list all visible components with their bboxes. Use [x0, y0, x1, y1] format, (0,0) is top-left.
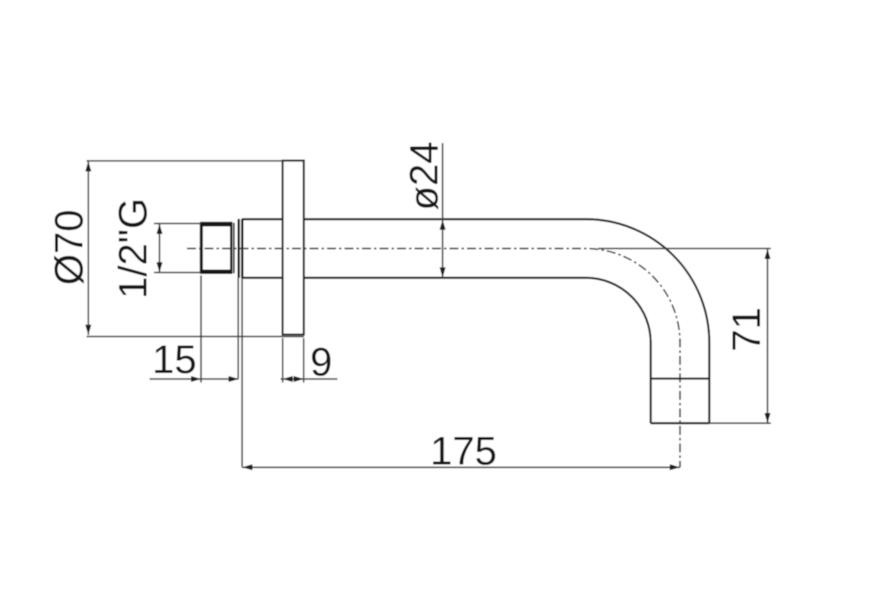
svg-text:71: 71 — [725, 307, 769, 352]
svg-text:15: 15 — [152, 338, 197, 382]
svg-text:ø24: ø24 — [403, 142, 447, 211]
svg-text:175: 175 — [430, 429, 497, 473]
svg-text:Ø70: Ø70 — [48, 209, 92, 285]
svg-text:1/2"G: 1/2"G — [112, 198, 156, 299]
svg-text:9: 9 — [310, 341, 332, 385]
